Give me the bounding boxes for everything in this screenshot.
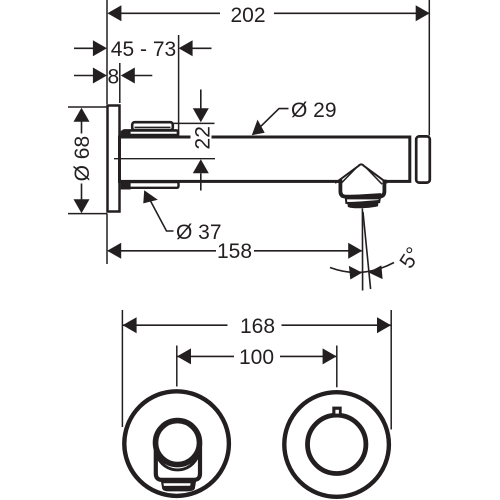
spout ring front <box>156 421 200 465</box>
handle index square hole <box>335 410 339 414</box>
extension line 100 left <box>176 346 178 387</box>
dimension 22 halo <box>191 125 212 151</box>
angle arrow right <box>368 265 382 279</box>
wall plate <box>108 106 120 212</box>
dimension 100 arrow right <box>323 348 337 364</box>
nozzle joint line <box>341 194 381 197</box>
lower left block <box>121 182 131 190</box>
extension line 168 left <box>121 310 123 427</box>
aerator black band <box>347 200 378 208</box>
extension line 100 right <box>336 346 338 388</box>
upper fitting cap <box>132 122 173 130</box>
svg-text:Ø 68: Ø 68 <box>71 136 94 182</box>
spout tube <box>120 137 410 181</box>
extension line 168 right <box>390 310 392 430</box>
dimension 202 line <box>109 12 429 14</box>
dimension 8 arrow left <box>93 68 107 84</box>
upper fitting cap inner line <box>135 126 171 128</box>
svg-text:100: 100 <box>239 346 274 369</box>
spray head tent outer <box>335 164 387 182</box>
label O37 leader <box>146 193 174 232</box>
lower flange <box>123 182 179 188</box>
dimension 168 line <box>123 324 391 326</box>
dimension 100 line <box>177 355 336 357</box>
upper left block <box>121 131 131 139</box>
dimension 158 arrow right <box>348 243 362 259</box>
dimension 202 arrow right <box>416 5 430 21</box>
handle index square <box>332 407 341 415</box>
svg-text:22: 22 <box>192 126 215 149</box>
dimension 22 upper line <box>200 90 202 110</box>
dimension 22 extension top <box>173 122 215 124</box>
angle arc <box>330 263 394 273</box>
aerator step <box>346 198 380 203</box>
dimension 100 arrow left <box>177 348 191 364</box>
dimension O68 extension bottom <box>68 213 107 215</box>
handle circle <box>308 415 366 473</box>
extension line 8 right <box>119 63 121 103</box>
svg-text:45 - 73: 45 - 73 <box>111 38 176 61</box>
dimension O68 arrow up <box>74 108 90 122</box>
extension line 158 left <box>106 214 108 265</box>
aerator front <box>161 481 196 492</box>
dimension O68 arrow down <box>74 199 90 213</box>
right escutcheon circle <box>284 392 389 497</box>
extension line 45-73 right <box>178 35 180 155</box>
dimension 168 arrow right <box>377 317 391 333</box>
svg-text:158: 158 <box>217 240 252 263</box>
left escutcheon circle <box>124 391 229 496</box>
extension line right spout end <box>428 0 430 136</box>
svg-text:202: 202 <box>230 4 265 27</box>
label O29 leader <box>255 109 289 133</box>
spray head tent inner right <box>365 166 382 184</box>
dimension 45-73 tails <box>74 47 212 49</box>
svg-text:8: 8 <box>107 66 119 89</box>
axis line <box>114 158 215 160</box>
dimension 8 tails <box>74 75 152 77</box>
upper flange <box>123 130 178 135</box>
svg-text:Ø 37: Ø 37 <box>176 221 222 244</box>
dimension 22 arrow down <box>193 108 209 122</box>
label O37 arrowhead <box>138 187 158 207</box>
dimension 158 line <box>108 250 362 252</box>
spray vertical line <box>361 209 363 291</box>
dimension O68 line segments <box>81 121 83 200</box>
svg-text:168: 168 <box>240 315 275 338</box>
svg-text:Ø 29: Ø 29 <box>291 99 337 122</box>
dimension 45-73 arrow left <box>93 40 107 56</box>
svg-text:5°: 5° <box>395 243 425 272</box>
dimension 8 arrow right <box>121 68 135 84</box>
extension line left wall <box>106 0 108 104</box>
label O29 arrowhead <box>247 120 268 141</box>
spray head tent inner left <box>340 166 357 184</box>
nozzle box <box>340 180 384 197</box>
spout end cap <box>416 136 430 182</box>
dimension 22 arrow up <box>193 159 209 173</box>
spray 5deg line <box>363 212 371 289</box>
dimension 158 arrow left <box>107 243 121 259</box>
aerator front slit <box>163 483 190 486</box>
angle arrow left <box>349 266 362 280</box>
dimension 168 arrow left <box>123 317 137 333</box>
spout body front <box>156 444 200 480</box>
dimension 202 arrow left <box>107 5 121 21</box>
dimension 45-73 arrow right <box>179 40 193 56</box>
dimension 22 lower line <box>200 173 202 190</box>
spout lower lip arc <box>157 455 198 470</box>
dimension O68 extension top <box>68 106 107 108</box>
